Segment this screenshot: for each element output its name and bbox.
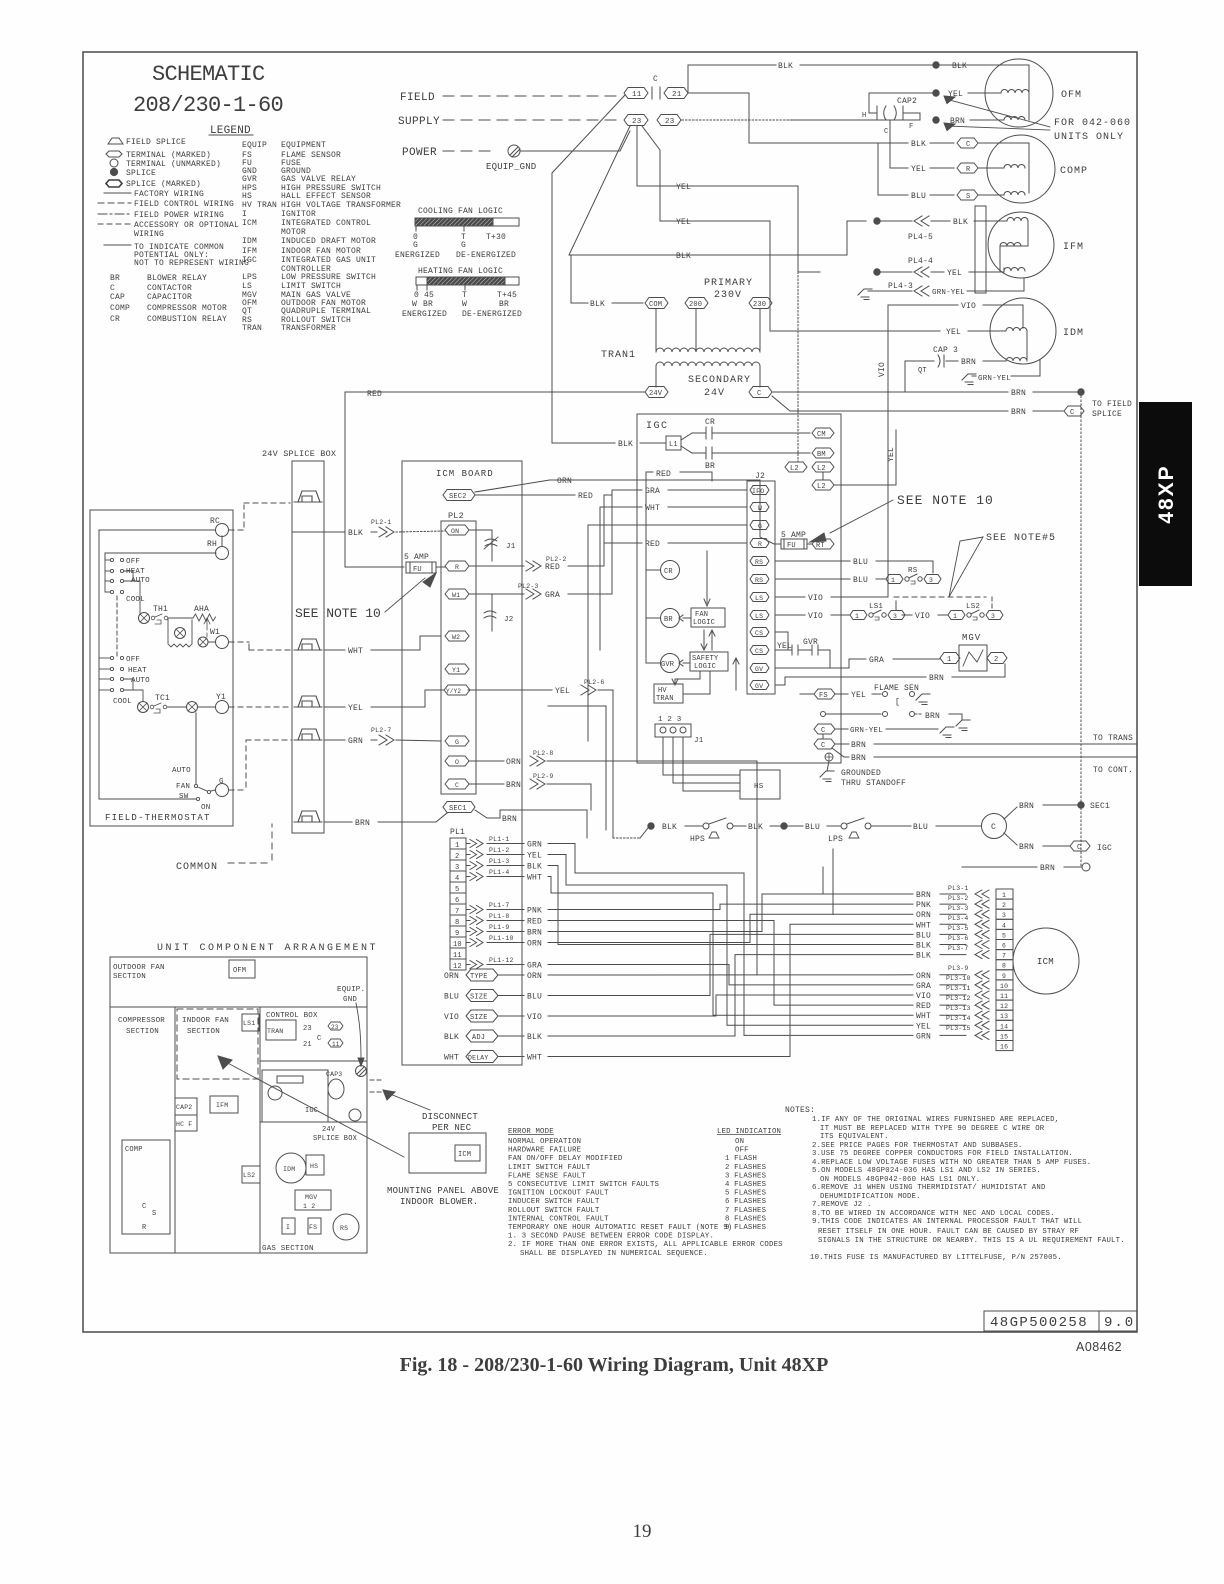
terminal GV b [750,681,769,690]
svg-text:5 CONSECUTIVE LIMIT SWITCH FAU: 5 CONSECUTIVE LIMIT SWITCH FAULTS [508,1181,660,1189]
terminal L2 third [812,480,834,490]
svg-text:OFM: OFM [233,967,246,975]
svg-text:11: 11 [1000,993,1008,1000]
svg-text:GRA: GRA [916,982,931,991]
contact C [651,87,653,99]
svg-text:45: 45 [424,291,434,300]
svg-text:21: 21 [672,91,682,99]
svg-text:1 2: 1 2 [303,1203,315,1210]
svg-text:7 FLASHES: 7 FLASHES [725,1207,767,1215]
wire PL1-4 WHT to PL3-13 [548,877,913,1016]
svg-text:HALL EFFECT SENSOR: HALL EFFECT SENSOR [281,192,371,201]
svg-text:EQUIPMENT: EQUIPMENT [281,141,326,150]
svg-text:YEL: YEL [947,269,962,278]
svg-text:BR: BR [499,300,509,309]
terminal G tstat [216,784,229,797]
svg-text:2: 2 [1002,902,1006,909]
svg-text:COOL: COOL [113,698,132,706]
svg-text:MOTOR: MOTOR [281,228,306,237]
svg-text:COMMON: COMMON [176,862,218,873]
legend symbol: splice marked [106,180,122,187]
svg-text:SEC1: SEC1 [449,805,467,813]
svg-text:H: H [862,112,866,120]
svg-text:BLK: BLK [748,823,763,832]
svg-text:IFO: IFO [752,488,764,495]
svg-text:RED: RED [916,1002,931,1011]
svg-text:24V: 24V [649,390,663,398]
wire G row [588,525,747,741]
svg-text:23: 23 [632,118,642,126]
svg-text:208/230-1-60: 208/230-1-60 [133,93,283,118]
svg-text:23: 23 [331,1024,339,1031]
field splice 5 [294,811,322,822]
svg-text:CR: CR [110,315,120,324]
IFM coil 3 [1004,268,1025,272]
svg-text:FAN ON/OFF DELAY MODIFIED: FAN ON/OFF DELAY MODIFIED [508,1155,623,1163]
terminal R pl2 [445,561,469,571]
svg-text:LS2: LS2 [966,603,980,611]
L1 fanout [681,433,692,453]
svg-text:BRN: BRN [502,815,517,824]
svg-text:24V: 24V [704,388,725,399]
svg-text:HC F: HC F [176,1121,192,1128]
svg-text:FIELD SPLICE: FIELD SPLICE [126,138,186,147]
svg-text:7.REMOVE J2 .: 7.REMOVE J2 . [812,1201,872,1209]
svg-text:C: C [757,390,761,398]
svg-text:WIRING: WIRING [134,230,164,239]
brn to igc c [1004,833,1017,845]
svg-text:A08462: A08462 [1076,1340,1122,1354]
terminal 23 b [657,115,681,126]
svg-text:BLK: BLK [676,252,691,261]
svg-text:W: W [412,300,417,309]
terminal SEC1 [443,802,475,813]
svg-text:TYPE: TYPE [470,973,488,981]
svg-text:GRN: GRN [348,737,363,746]
svg-text:16: 16 [1000,1044,1008,1051]
COMP coil 1 [1004,165,1025,168]
svg-text:5 FLASHES: 5 FLASHES [725,1190,767,1198]
svg-text:PL2: PL2 [448,511,464,521]
svg-text:GV: GV [755,683,763,690]
svg-text:DELAY: DELAY [468,1055,489,1062]
svg-text:BR: BR [705,462,715,471]
svg-text:CM: CM [817,431,826,439]
svg-text:RED: RED [545,563,560,572]
relay bus [646,570,660,663]
RED riser to FU [345,392,404,567]
svg-text:INTEGRATED CONTROL: INTEGRATED CONTROL [281,219,371,228]
OFM coil 1 [1001,90,1029,93]
svg-text:SECTION: SECTION [187,1028,220,1036]
wire WHT row [324,649,345,651]
svg-text:HV TRAN: HV TRAN [242,201,277,210]
svg-text:10.THIS FUSE IS MANUFACTURED B: 10.THIS FUSE IS MANUFACTURED BY LITTELFU… [810,1254,1062,1262]
switch LPS [841,823,847,829]
wire BRN row [324,821,352,823]
svg-text:ERROR MODE: ERROR MODE [508,1128,554,1136]
svg-text:PL1-4: PL1-4 [489,869,510,876]
svg-text:PL1-8: PL1-8 [489,913,510,920]
svg-text:ICM: ICM [1037,957,1054,967]
svg-text:WHT: WHT [348,647,363,656]
svg-text:ORN: ORN [557,477,572,486]
svg-text:HS: HS [754,783,764,791]
primary drops [655,309,657,350]
svg-text:PL2-2: PL2-2 [546,556,567,563]
OFM motor circle [985,59,1053,127]
COMP coil 2 [1004,192,1025,196]
svg-text:GV: GV [755,666,763,673]
bulb TC1 second [187,702,198,713]
svg-text:GRA: GRA [527,962,542,971]
terminal BM [812,448,834,458]
svg-text:C: C [653,75,658,84]
svg-text:YEL: YEL [676,183,691,192]
svg-text:PL3-5: PL3-5 [948,925,969,932]
svg-text:3.USE 75 DEGREE COPPER CONDUCT: 3.USE 75 DEGREE COPPER CONDUCTORS FOR FI… [812,1150,1073,1158]
svg-text:HPS: HPS [690,835,705,844]
svg-text:GRN: GRN [527,841,542,850]
svg-text:INTEGRATED GAS UNIT: INTEGRATED GAS UNIT [281,256,376,265]
svg-text:GRA: GRA [869,656,884,665]
svg-text:BRN: BRN [1019,843,1034,852]
terminal RS b [750,575,769,584]
svg-text:VIO: VIO [916,992,931,1001]
svg-text:AHA: AHA [194,605,209,614]
svg-text:LED INDICATION: LED INDICATION [717,1128,781,1136]
svg-text:RH: RH [207,540,217,549]
svg-text:TO TRANS: TO TRANS [1093,734,1133,743]
svg-text:FAN: FAN [695,611,708,619]
svg-text:9.THIS CODE INDICATES AN INTER: 9.THIS CODE INDICATES AN INTERNAL PROCES… [812,1218,1082,1226]
terminal 23 a [624,115,648,126]
svg-text:INTERNAL CONTROL FAULT: INTERNAL CONTROL FAULT [508,1215,609,1223]
terminal 11 [624,88,648,99]
svg-text:HIGH VOLTAGE TRANSFORMER: HIGH VOLTAGE TRANSFORMER [281,201,401,210]
svg-text:14: 14 [1000,1023,1008,1030]
svg-text:R: R [142,1224,147,1232]
svg-text:IDM: IDM [242,237,257,246]
svg-text:YEL: YEL [676,218,691,227]
svg-text:WHT: WHT [645,504,660,513]
svg-text:GROUNDED: GROUNDED [841,769,881,778]
svg-text:BR: BR [664,616,673,624]
svg-text:SPLICE: SPLICE [126,169,156,178]
svg-text:PL3-7: PL3-7 [948,945,969,952]
svg-text:PL1-3: PL1-3 [489,858,510,865]
svg-text:FLAME SENSE FAULT: FLAME SENSE FAULT [508,1172,586,1180]
svg-text:SEE NOTE#5: SEE NOTE#5 [986,533,1056,544]
svg-text:COOL: COOL [126,596,145,604]
contact BR [692,452,706,454]
wire SIZE BLU to PL3-5 [548,934,913,995]
svg-text:EQUIP_GND: EQUIP_GND [486,162,536,172]
svg-text:ADJ: ADJ [472,1034,485,1042]
svg-text:PER NEC: PER NEC [432,1123,472,1133]
splice dot PL4-5 [874,218,880,224]
svg-text:BRN: BRN [851,741,866,750]
48XP tab [1139,402,1192,586]
wire PL1-8 RED to PL3-12 [548,921,913,1006]
svg-text:LIMIT SWITCH: LIMIT SWITCH [281,282,341,291]
SEC1 hook wire [475,810,500,818]
svg-text:CAP 3: CAP 3 [933,346,958,355]
svg-text:200: 200 [689,301,702,309]
svg-text:W2: W2 [452,634,460,641]
wire PL2-2 RED [469,565,524,567]
svg-text:G: G [413,241,418,250]
svg-text:SPLICE: SPLICE [1092,410,1122,419]
arrow safety to hv tran [672,671,700,685]
COMP box uca [122,1140,170,1234]
COMP wires from terminals [978,143,1029,168]
svg-text:LS: LS [242,282,252,291]
svg-text:6: 6 [1002,943,1006,950]
wire riser to pl3-3 [832,849,834,914]
terminal C pl2 [445,779,469,789]
svg-text:BLK: BLK [916,952,931,961]
legend symbol: common potential [104,244,131,246]
svg-text:YEL: YEL [946,328,961,337]
svg-text:ICM: ICM [242,219,257,228]
svg-text:CAP2: CAP2 [897,97,917,106]
svg-text:13: 13 [1000,1013,1008,1020]
svg-text:BLK: BLK [778,62,793,71]
svg-text:Y/Y2: Y/Y2 [446,688,461,695]
svg-text:BLU: BLU [444,993,459,1002]
svg-text:BLK: BLK [662,823,677,832]
terminal RS a [750,557,769,566]
svg-text:ORN: ORN [527,940,542,949]
PL4 connector strip [975,206,986,293]
svg-text:1: 1 [891,577,895,584]
svg-text:GND: GND [343,996,357,1004]
svg-text:SECTION: SECTION [113,973,146,981]
field splice 3 [294,696,322,707]
svg-text:ORN: ORN [506,758,521,767]
svg-text:T+45: T+45 [497,291,517,300]
diagonal 11 to L1 riser [552,95,625,443]
svg-text:TRAN: TRAN [242,324,262,333]
field splice 2 [294,639,322,650]
svg-text:RED: RED [367,390,382,399]
svg-text:I: I [242,210,247,219]
svg-text:YEL: YEL [887,447,896,462]
legend symbol: accessory wiring [98,223,131,225]
svg-text:YEL: YEL [911,165,926,174]
wire ADJ BLK to PL3-7 [548,955,913,1036]
SEE NOTE 10 arrow icm [385,578,425,612]
svg-text:ON: ON [451,528,459,535]
svg-text:6.REMOVE J1 WHEN USING THERMID: 6.REMOVE J1 WHEN USING THERMIDISTAT/ HUM… [812,1184,1046,1192]
svg-text:G: G [461,241,466,250]
svg-text:WHT: WHT [527,874,542,883]
svg-text:PL1-9: PL1-9 [489,924,510,931]
svg-text:C: C [142,1203,146,1211]
svg-text:GAS VALVE RELAY: GAS VALVE RELAY [281,175,356,184]
svg-text:SW: SW [179,793,189,801]
svg-text:MGV: MGV [305,1194,317,1201]
svg-text:2. IF MORE THAN ONE ERROR EXIS: 2. IF MORE THAN ONE ERROR EXISTS, ALL AP… [508,1241,783,1249]
svg-text:CR: CR [705,418,715,427]
VIO riser [887,305,889,597]
svg-text:TC1: TC1 [155,694,170,703]
svg-text:RS: RS [340,1225,348,1232]
svg-text:COMP: COMP [125,1146,143,1154]
svg-text:DISCONNECT: DISCONNECT [422,1112,478,1122]
arrows fan logic to safety logic [701,630,707,650]
wire CAP2 H up to YEL OFM row [869,93,934,113]
svg-text:VIO: VIO [444,1013,459,1022]
terminal C comp [957,138,978,148]
svg-text:SCHEMATIC: SCHEMATIC [152,62,265,87]
svg-text:TRAN1: TRAN1 [601,350,636,361]
svg-text:C: C [1077,844,1081,852]
svg-text:TRAN: TRAN [656,695,674,703]
J1 pins to HS [663,737,740,775]
svg-text:23: 23 [303,1025,312,1033]
svg-text:SUPPLY: SUPPLY [398,116,440,128]
secondary coil [656,362,760,366]
IDM circle uca [276,1153,306,1183]
svg-text:BLK: BLK [911,140,926,149]
callout FOR 042-060 UNITS ONLY [946,99,1050,127]
svg-text:HS: HS [242,192,252,201]
terminal CM [812,428,834,438]
wire YEL row [324,706,345,708]
svg-text:OFM: OFM [1061,90,1082,101]
svg-text:INDUCED DRAFT MOTOR: INDUCED DRAFT MOTOR [281,237,376,246]
svg-text:BLK: BLK [590,300,605,309]
svg-text:ORN: ORN [444,972,459,981]
HPS LPS row [613,837,640,839]
svg-text:HV: HV [658,687,667,695]
svg-text:IFM: IFM [242,247,257,256]
IGC box uca [262,1070,328,1122]
RS circle uca [333,1214,359,1240]
svg-text:PL1-12: PL1-12 [489,957,514,964]
svg-text:3: 3 [1002,912,1006,919]
svg-text:ACCESSORY OR OPTIONAL: ACCESSORY OR OPTIONAL [134,221,239,230]
IFM motor circle [988,212,1054,278]
svg-text:CONTROL BOX: CONTROL BOX [266,1012,318,1020]
svg-text:[: [ [895,698,900,707]
svg-text:FU: FU [413,566,422,574]
svg-text:O: O [455,759,459,766]
svg-text:6 FLASHES: 6 FLASHES [725,1198,767,1206]
svg-text:PRIMARY: PRIMARY [704,278,753,289]
svg-text:FIELD CONTROL WIRING: FIELD CONTROL WIRING [134,200,234,209]
ICM mounting panel box [409,1133,486,1173]
svg-text:FU: FU [787,542,796,550]
svg-text:TERMINAL (MARKED): TERMINAL (MARKED) [126,151,211,160]
IDM coil 2 [1006,358,1027,362]
svg-text:RT: RT [816,542,825,550]
wire BLK bus row to IFM PL4-5 [569,221,866,255]
svg-text:J1: J1 [694,737,704,745]
svg-text:BR: BR [423,300,433,309]
svg-text:ICM: ICM [458,1151,471,1159]
terminal ON [445,525,469,535]
svg-text:BM: BM [817,451,826,459]
svg-text:1: 1 [947,656,951,664]
svg-text:5.ON MODELS 48GP024-036 HAS LS: 5.ON MODELS 48GP024-036 HAS LS1 AND LS2 … [812,1167,1041,1175]
svg-text:TO CONT.: TO CONT. [1093,766,1133,775]
svg-text:CAPACITOR: CAPACITOR [147,293,192,302]
svg-text:GVR: GVR [661,661,675,669]
switch HPS [703,823,709,829]
svg-text:COMPRESSOR MOTOR: COMPRESSOR MOTOR [147,304,227,313]
svg-text:ICM BOARD: ICM BOARD [436,469,494,479]
svg-text:SECTION: SECTION [126,1028,159,1036]
svg-text:3 FLASHES: 3 FLASHES [725,1172,767,1180]
svg-text:IGNITOR: IGNITOR [281,210,316,219]
svg-text:J1: J1 [506,543,516,551]
svg-text:CAP2: CAP2 [176,1104,192,1111]
svg-text:L2: L2 [817,465,826,473]
relay CR circle [661,561,680,580]
wire ORN to FU [550,480,781,544]
svg-text:OFF: OFF [126,558,140,566]
svg-text:COOLING FAN LOGIC: COOLING FAN LOGIC [418,207,503,216]
svg-text:48XP: 48XP [1155,464,1178,523]
svg-text:INDUCER SWITCH FAULT: INDUCER SWITCH FAULT [508,1198,600,1206]
svg-text:HARDWARE FAILURE: HARDWARE FAILURE [508,1147,581,1155]
svg-text:PL1-2: PL1-2 [489,847,510,854]
svg-text:MOUNTING PANEL ABOVE: MOUNTING PANEL ABOVE [387,1186,499,1196]
LS2 box [242,1166,260,1183]
svg-text:PL4-4: PL4-4 [908,257,933,266]
svg-text:VIO: VIO [878,362,887,377]
svg-text:IGNITION LOCKOUT FAULT: IGNITION LOCKOUT FAULT [508,1190,609,1198]
svg-text:SIZE: SIZE [470,994,488,1002]
wire SIZE VIO to PL3-11 [548,995,913,1016]
svg-text:GAS SECTION: GAS SECTION [262,1245,314,1253]
svg-text:230: 230 [753,301,766,309]
secondary drops [655,366,657,387]
terminal S comp [957,190,978,200]
svg-text:MGV: MGV [962,633,981,643]
svg-text:5: 5 [1002,932,1006,939]
svg-text:FS: FS [309,1224,317,1231]
svg-text:GRN: GRN [916,1032,931,1041]
svg-text:BRN: BRN [851,754,866,763]
wire DELAY WHT to PL3-4 [548,924,913,1056]
svg-text:ORN: ORN [527,972,542,981]
svg-text:LIMIT SWITCH FAULT: LIMIT SWITCH FAULT [508,1164,591,1172]
section dividers [110,1006,367,1008]
svg-text:DE-ENERGIZED: DE-ENERGIZED [462,310,522,319]
svg-text:ROLLOUT SWITCH FAULT: ROLLOUT SWITCH FAULT [508,1207,600,1215]
svg-text:IGC: IGC [1097,844,1112,853]
svg-text:3: 3 [929,577,933,584]
svg-text:SEE NOTE 10: SEE NOTE 10 [897,493,994,508]
heat anticipator box [168,620,192,647]
svg-text:FIELD: FIELD [400,92,435,104]
svg-text:BLK: BLK [618,440,633,449]
svg-text:FIELD-THERMOSTAT: FIELD-THERMOSTAT [105,813,211,823]
wire YEL row2 to IDM [642,126,940,331]
svg-text:COM: COM [649,301,662,309]
riser LS1-3 to dashed row [895,601,897,610]
terminal O pl2 [445,756,469,766]
terminal W2 pl2 [445,631,469,641]
svg-text:POWER: POWER [402,147,437,159]
OFM coil 2 [1004,117,1025,120]
svg-text:BRN: BRN [1019,802,1034,811]
terminal R comp [957,163,978,173]
